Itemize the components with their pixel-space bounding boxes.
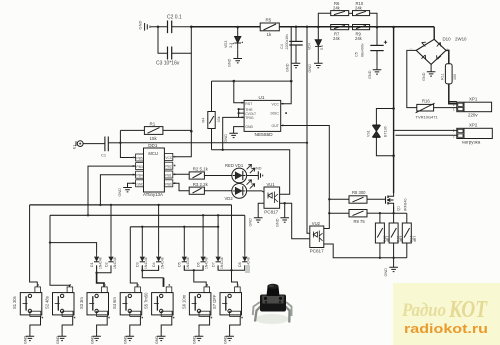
svg-text:S2 48s: S2 48s <box>44 296 49 309</box>
wire: TRIG to R4 bottom node <box>223 117 239 149</box>
svg-text:D6: D6 <box>196 262 200 267</box>
svg-text:D3: D3 <box>136 262 140 267</box>
svg-text:XP1: XP1 <box>469 96 478 101</box>
svg-text:RED VD1: RED VD1 <box>225 163 244 168</box>
svg-text:GND: GND <box>136 182 144 186</box>
wire: S1 riser <box>30 205 38 287</box>
svg-text:GND: GND <box>245 125 253 129</box>
svg-text:S5 7m50: S5 7m50 <box>144 292 149 309</box>
svg-text:C1: C1 <box>101 153 107 158</box>
ground (below bridge) <box>422 64 435 81</box>
svg-text:GND: GND <box>223 335 227 344</box>
svg-text:15k: 15k <box>150 136 158 141</box>
MCU DD1 ATtiny13A <box>143 143 164 197</box>
svg-text:GND: GND <box>24 335 28 344</box>
watermark: radiokot.ru logo <box>393 283 500 345</box>
resistor R8 300 (gate) <box>329 190 385 203</box>
wire: bus H3 <box>130 226 218 228</box>
svg-text:D8: D8 <box>238 262 242 267</box>
wire: S7 riser <box>232 205 238 287</box>
svg-text:PC817: PC817 <box>310 248 324 253</box>
resistor R14 4R7 <box>402 223 417 243</box>
resistor R9 24k (on rail) <box>353 25 370 42</box>
svg-text:D5: D5 <box>178 262 182 267</box>
svg-text:VCC: VCC <box>165 156 173 160</box>
svg-text:GND: GND <box>138 21 143 30</box>
svg-text:VU1: VU1 <box>267 182 276 187</box>
resistor R9 75 (feedback) <box>329 210 380 224</box>
diode D2 1N4148 <box>104 205 117 271</box>
wire: XS1 pin2 stub <box>395 134 456 136</box>
svg-text:4R7: 4R7 <box>400 236 404 242</box>
node E1 sensor input <box>73 141 105 149</box>
svg-text:1N4148: 1N4148 <box>205 257 209 269</box>
svg-text:C5: C5 <box>355 52 359 57</box>
ground (DD1 GND pin) <box>118 183 136 196</box>
svg-text:GND: GND <box>155 335 159 344</box>
svg-text:S7 OFF: S7 OFF <box>212 294 217 309</box>
svg-text:R3 2.2k: R3 2.2k <box>193 182 209 187</box>
ground (below C5) <box>368 67 382 79</box>
svg-text:Радио: Радио <box>401 300 446 321</box>
svg-text:R2 5.1k: R2 5.1k <box>193 167 209 172</box>
svg-text:24k: 24k <box>333 36 341 41</box>
svg-text:TVR10G471: TVR10G471 <box>416 114 439 119</box>
wire: RST tie to VCC (y81) <box>212 81 292 103</box>
svg-text:R4: R4 <box>202 118 206 123</box>
wire: PB4 to H1 riser x100.4 <box>100 175 135 205</box>
diode D1 1N4148 <box>50 243 102 271</box>
svg-text:DD1: DD1 <box>148 143 158 148</box>
wire: VU2 pin1 feed from rail x304 <box>307 27 310 233</box>
svg-text:24k: 24k <box>333 6 341 11</box>
svg-text:GND: GND <box>227 58 231 67</box>
svg-text:BT136: BT136 <box>383 126 387 137</box>
diode D4 1N4148 <box>152 205 165 271</box>
pin PB5 (DD1 left 1) <box>133 154 144 161</box>
wire: VCC riser x291 (rail to 555 VCC) <box>281 27 292 104</box>
svg-text:C2 0.1: C2 0.1 <box>167 15 182 21</box>
diode D7 1N4148 <box>211 215 224 270</box>
resistor R10 24k (top chain) <box>349 1 377 27</box>
svg-text:D7: D7 <box>211 262 215 267</box>
diode D3 1N4148 <box>136 227 149 271</box>
svg-text:R16: R16 <box>422 99 430 104</box>
svg-text:D10: D10 <box>443 37 452 42</box>
svg-text:24k: 24k <box>355 36 363 41</box>
svg-text:GND: GND <box>285 63 289 72</box>
svg-text:VU2: VU2 <box>312 221 321 226</box>
wire: PB3 to H2 riser x88 <box>88 166 136 215</box>
svg-text:PC817: PC817 <box>264 209 278 214</box>
svg-text:КОТ: КОТ <box>448 297 488 323</box>
svg-text:1N4148: 1N4148 <box>113 257 117 269</box>
svg-text:1: 1 <box>453 108 455 112</box>
wire: drain line x394 from rail down to Q1 <box>392 26 395 193</box>
svg-text:GND: GND <box>118 188 122 197</box>
svg-text:GND: GND <box>308 64 312 73</box>
svg-text:GND: GND <box>253 166 262 170</box>
svg-text:R5: R5 <box>266 18 272 23</box>
svg-text:E1: E1 <box>73 145 77 149</box>
optocoupler VU2 PC817 <box>310 221 324 254</box>
resistor R7 24k (on rail) <box>331 25 349 42</box>
resistor R13 4R7 <box>389 223 404 243</box>
pushbutton S4 <box>112 284 143 344</box>
photo: tactile pushbutton (inset picture) <box>245 265 292 324</box>
wire: S4 riser <box>130 227 137 287</box>
node: C2/C3 right rail junction <box>157 26 160 29</box>
wire: bridge AC1 to mains column x407 <box>407 50 417 107</box>
svg-text:R9 75: R9 75 <box>354 219 366 224</box>
svg-text:S1 30s: S1 30s <box>12 296 17 309</box>
svg-text:1N4148: 1N4148 <box>98 257 102 269</box>
diode bridge D10 2W10 <box>410 37 467 65</box>
pushbutton S6 <box>181 284 212 344</box>
triac VS1 BT136 <box>366 109 393 156</box>
trimmer R1 15k <box>120 122 191 141</box>
wire: D3/D4 join + S5 drop <box>142 266 158 271</box>
svg-text:IRF840: IRF840 <box>404 199 408 211</box>
svg-text:GND: GND <box>224 134 228 143</box>
svg-text:RST: RST <box>245 102 253 106</box>
svg-text:MCU: MCU <box>148 151 158 156</box>
varistor R16 TVR <box>416 99 457 120</box>
LED VD2 <box>225 180 255 201</box>
svg-text:33k: 33k <box>217 116 221 122</box>
svg-text:24k: 24k <box>355 6 363 11</box>
svg-text:D2: D2 <box>104 262 108 267</box>
svg-text:PB3: PB3 <box>136 165 143 169</box>
pushbutton S5 <box>144 284 175 344</box>
wire: source node rail y213 <box>380 213 407 223</box>
wire: 555 OUT to gate column <box>281 126 330 229</box>
wire: VU1 pin2 to ground <box>249 203 264 226</box>
capacitor C4 2200*16v (electrolytic) <box>280 26 303 61</box>
diode D6 1N4148 <box>196 215 208 270</box>
wire: D5/D6 join + S6 drop <box>184 266 203 271</box>
svg-text:GND: GND <box>275 218 279 227</box>
pin PB2 (DD1 right 2) <box>164 162 175 169</box>
zener VD4 <box>307 27 323 61</box>
wire: D7/D8 join <box>218 266 245 271</box>
pin PB4 (DD1 left 3) <box>133 171 144 178</box>
resistor R4 33k (timing) <box>202 81 221 150</box>
svg-text:Q1: Q1 <box>397 206 401 211</box>
pushbutton S3 <box>79 284 110 344</box>
svg-text:нагрузка: нагрузка <box>462 139 481 144</box>
svg-text:VS1: VS1 <box>366 130 370 137</box>
svg-text:VD4: VD4 <box>307 43 311 50</box>
capacitor C5 68*400v (electrolytic) <box>355 26 388 67</box>
pushbutton S2 <box>44 284 75 344</box>
svg-text:S4 6m: S4 6m <box>112 297 117 309</box>
svg-text:TRIG: TRIG <box>245 116 254 120</box>
resistor R6 24k (top chain) <box>317 1 349 28</box>
svg-text:1N4148: 1N4148 <box>220 257 224 269</box>
svg-text:VD3: VD3 <box>224 41 228 48</box>
svg-text:U1: U1 <box>259 95 265 100</box>
wire: VU1 pin3 to VU2 pin2 with ground tap <box>275 202 310 239</box>
pushbutton S7 <box>212 284 243 344</box>
svg-text:PB2: PB2 <box>165 165 172 169</box>
svg-text:ATtiny13A: ATtiny13A <box>143 192 163 197</box>
resistor R12 4R7 <box>375 223 390 243</box>
svg-text:C4: C4 <box>280 44 284 49</box>
svg-text:1k: 1k <box>267 32 273 37</box>
svg-text:S3 3m: S3 3m <box>79 297 84 309</box>
svg-text:PB1: PB1 <box>165 174 172 178</box>
wire: sense resistors bottoms to ground <box>379 243 407 277</box>
pushbutton S1 <box>12 284 43 344</box>
pin PB0 (DD1 right 4) <box>164 180 175 187</box>
wire: R1 left drop to PB5 node <box>119 130 121 142</box>
capacitor C3 10*16v <box>156 27 192 67</box>
wire: R4 bottom feedback to VU1 pin4 <box>212 150 290 194</box>
svg-text:1: 1 <box>453 129 455 133</box>
svg-text:2200x16v: 2200x16v <box>285 34 289 50</box>
svg-text:5.1: 5.1 <box>320 45 324 50</box>
svg-text:R8 300: R8 300 <box>352 190 366 195</box>
pin PB1 (DD1 right 3) <box>164 171 175 178</box>
ground GND (left of C2) <box>138 21 158 31</box>
svg-text:100: 100 <box>453 74 457 80</box>
optocoupler VU1 PC817 <box>264 182 280 214</box>
wire: bus1 (sense net above DD1) y142.8 from C1 to x304 <box>120 142 307 144</box>
timer U1 NE555D <box>241 95 287 138</box>
svg-text:3.3: 3.3 <box>229 43 233 48</box>
connector XS1 load <box>453 123 493 145</box>
svg-text:GND: GND <box>90 335 94 344</box>
svg-text:DISC: DISC <box>271 112 280 116</box>
wire: PB5 drop x120.4 <box>120 143 135 158</box>
svg-text:OUT: OUT <box>272 124 280 128</box>
svg-text:GND: GND <box>56 335 60 344</box>
svg-text:2W10: 2W10 <box>455 37 467 42</box>
wire: XS1 pin1 to drain line <box>394 129 457 131</box>
pin VCC (DD1 right 1) <box>164 153 175 160</box>
wire: VU2 pin3 to sense resistors bottom rail <box>324 244 407 258</box>
wire: VCC riser x191 down to DD1 VCC pin <box>173 27 192 157</box>
wire: +V rail top (y27) <box>191 26 434 28</box>
svg-text:C3 10*16v: C3 10*16v <box>156 61 180 67</box>
wire: bus H2 (PB3 row) <box>50 214 245 216</box>
svg-text:PB5: PB5 <box>136 157 143 161</box>
svg-text:GND: GND <box>193 335 197 344</box>
svg-text:GND: GND <box>249 218 253 227</box>
svg-text:PB0: PB0 <box>165 182 172 186</box>
resistor R2 5.1k <box>173 167 232 180</box>
resistor R5 (fusible) <box>260 18 279 38</box>
svg-text:S6 10m: S6 10m <box>181 294 186 309</box>
diode D8 1N4148 <box>238 215 251 270</box>
svg-text:R11: R11 <box>440 73 444 80</box>
svg-text:220v: 220v <box>468 113 478 118</box>
svg-text:GND: GND <box>384 268 388 277</box>
LED VD1 (red) <box>225 163 255 183</box>
svg-text:VD2: VD2 <box>225 196 234 201</box>
svg-text:R1: R1 <box>150 122 156 127</box>
svg-text:D4: D4 <box>152 262 156 267</box>
pin PB3 (DD1 left 2) <box>133 163 144 170</box>
resistor R11 (in XP1 feed) <box>440 50 457 101</box>
wire: THR/TRIG/CV tie vertical x238.6 <box>239 109 245 117</box>
ground (below VD3) <box>227 49 242 67</box>
capacitor C1 (series in sense line) <box>101 137 120 158</box>
ground (555 GND pin) <box>224 127 244 143</box>
svg-text:NE555D: NE555D <box>255 132 274 138</box>
wire: XP1 pin2 wire from bridge <box>449 102 457 104</box>
svg-text:4R7: 4R7 <box>413 236 417 242</box>
svg-text:PB4: PB4 <box>136 174 143 178</box>
svg-text:GND: GND <box>422 72 426 81</box>
svg-text:1N4148: 1N4148 <box>160 257 164 269</box>
svg-text:radiokot.ru: radiokot.ru <box>404 322 488 336</box>
svg-text:D1: D1 <box>90 262 94 267</box>
svg-text:1N4148: 1N4148 <box>144 257 148 269</box>
ground (LED cathodes) <box>247 166 263 180</box>
ground (below C4) <box>285 60 300 72</box>
pin GND (DD1 left 4) <box>133 180 145 187</box>
zener VD3 3.3 <box>224 26 243 49</box>
wire: VD2 cathode to VU1 pin1 <box>247 191 264 193</box>
resistor R3 2.2k <box>173 182 232 194</box>
svg-text:XP2: XP2 <box>469 123 478 128</box>
svg-text:GND: GND <box>124 335 128 344</box>
capacitor C2 0.1 <box>158 15 192 34</box>
transistor Q1 IRF840 (MOSFET) <box>386 193 408 213</box>
wire: rail corner down to bridge top <box>433 27 435 40</box>
svg-text:1N4148: 1N4148 <box>186 257 190 269</box>
diode D5 1N4148 <box>178 227 191 271</box>
svg-text:VCC: VCC <box>272 102 280 106</box>
ground (below VD4) <box>308 60 323 72</box>
svg-text:GND: GND <box>368 70 372 79</box>
connector XP1 220v <box>453 96 492 117</box>
wire: bus H1 (PB4 row) <box>30 204 232 206</box>
svg-text:68x400v: 68x400v <box>360 43 364 57</box>
wire: S2 riser <box>50 215 70 287</box>
wire: D1/D2 join + S3 drop <box>97 266 111 273</box>
